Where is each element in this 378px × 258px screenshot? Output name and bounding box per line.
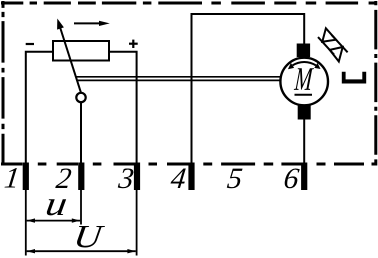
mechanical link double line (wiper to motor) (76, 77, 281, 81)
pin number 4 (170, 169, 186, 188)
extension line pin2 (80, 190, 82, 225)
wire wiper circle to pin2 (80, 102, 82, 163)
dimension line U (pins 1-3) (27, 249, 136, 253)
wire pin4 up and over to motor top (192, 14, 305, 163)
terminal pin 1 (23, 163, 29, 191)
minus polarity label (26, 43, 34, 45)
wire pin1 to resistor left (26, 52, 53, 163)
enclosure border bottom (dash-dot) (1, 163, 377, 166)
motor M1 body circle (280, 58, 328, 106)
wire motor bottom to pin6 (303, 119, 305, 163)
motor rotation double arrow arc (293, 62, 316, 65)
throttle flap symbol lower triangle (330, 47, 343, 62)
pin number 3 (118, 168, 134, 188)
extension line pin3 (136, 190, 138, 256)
enclosure border right (dash-dot) (374, 1, 377, 166)
throttle flap shaft line right (332, 35, 348, 52)
bracket symbol (connector) (342, 72, 366, 84)
pin number 5 (227, 169, 243, 189)
motor top brush (297, 44, 310, 58)
enclosure border left (dash-dot) (2, 1, 5, 166)
pin number 2 (55, 168, 72, 188)
motor letter M (294, 68, 314, 90)
dimension line u (pins 1-2) (27, 218, 81, 222)
plus polarity label (129, 40, 138, 48)
terminal pin 2 (78, 163, 84, 191)
terminal pin 6 (301, 163, 307, 191)
wire resistor right to pin3 (109, 52, 137, 163)
terminal pin 4 (188, 163, 194, 191)
wiper arrow (diagonal) (57, 19, 81, 93)
wiper contact circle (76, 93, 85, 102)
motion direction arrow (74, 21, 110, 26)
label u (46, 199, 66, 215)
label U (76, 226, 105, 247)
rotation arrowhead left (288, 63, 294, 69)
throttle flap symbol upper triangle (322, 28, 336, 42)
rotation arrowhead right (314, 63, 320, 69)
throttle flap shaft line left (318, 37, 334, 55)
pin number 6 (284, 168, 300, 188)
pin number 1 (5, 168, 18, 187)
enclosure border top (dash-dot) (1, 2, 377, 5)
terminal pin 3 (134, 163, 140, 191)
potentiometer resistor body R1 (53, 41, 109, 61)
extension line pin1 (25, 190, 27, 256)
motor M underline (295, 94, 313, 96)
motor bottom brush (298, 106, 311, 120)
